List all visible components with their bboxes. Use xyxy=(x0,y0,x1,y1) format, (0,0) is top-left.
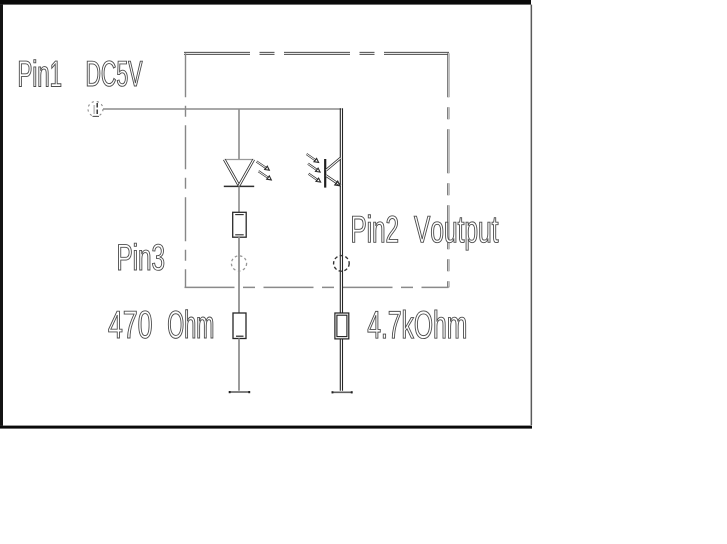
page border right xyxy=(531,5,533,426)
optocoupler dashed box right edge xyxy=(447,53,449,287)
inner resistor body (LED column) xyxy=(233,212,247,237)
label Pin1 xyxy=(19,60,61,87)
label DC5V xyxy=(87,61,142,86)
terminal Pin1 xyxy=(88,102,103,117)
LED D1 xyxy=(224,160,254,187)
label Pin3 xyxy=(118,243,163,270)
ground right xyxy=(332,391,353,393)
wire LED anode column upper xyxy=(238,109,240,160)
label Voutput xyxy=(414,216,498,250)
wire Pin1 to right rail xyxy=(103,108,342,110)
phototransistor light arrows xyxy=(307,154,321,182)
optocoupler dashed box top edge xyxy=(184,52,449,55)
label 470 xyxy=(109,311,152,339)
optocoupler dashed box left edge xyxy=(185,53,187,287)
phototransistor collector line xyxy=(326,158,341,170)
resistor 4.7kOhm body xyxy=(335,313,349,339)
right rail (collector/emitter line, doubled) xyxy=(340,108,342,391)
wire inner resistor to Pin3 node xyxy=(238,237,240,313)
page border top bar xyxy=(0,0,531,5)
phototransistor Q1 base bar xyxy=(324,159,326,188)
terminal Pin3 xyxy=(231,256,246,271)
terminal Pin2 xyxy=(334,256,350,272)
label Pin2 xyxy=(352,215,397,243)
page border bottom xyxy=(0,426,532,429)
wire LED cathode to inner resistor xyxy=(238,186,240,212)
ground left xyxy=(229,391,251,393)
page border left xyxy=(0,5,3,426)
label 4.7kOhm xyxy=(368,310,466,339)
phototransistor emitter line with arrow xyxy=(326,176,341,186)
label Ohm xyxy=(168,310,213,339)
resistor 470 Ohm body xyxy=(233,313,246,339)
wire 470 Ohm to ground xyxy=(238,339,240,391)
LED light arrows xyxy=(257,162,272,180)
optocoupler dashed box bottom edge xyxy=(185,286,449,288)
